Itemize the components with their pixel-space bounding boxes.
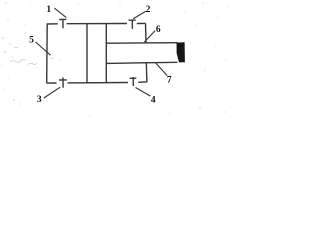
port 4 cap xyxy=(130,77,137,79)
cylinder top wall segment left xyxy=(47,23,58,25)
piston left face xyxy=(86,24,88,83)
leader line 2 xyxy=(133,11,146,19)
leader line 4 xyxy=(136,88,151,97)
svg-text:3: 3 xyxy=(37,95,42,105)
port 3 stem xyxy=(62,78,64,88)
leader line 1 xyxy=(55,8,67,17)
port 1 stem xyxy=(62,19,64,28)
piston right face 6 xyxy=(105,24,107,83)
rod end black tip xyxy=(177,42,185,62)
cylinder right wall lower xyxy=(145,62,148,82)
svg-text:6: 6 xyxy=(156,25,161,35)
leader line 3 xyxy=(44,87,60,98)
scan noise speckles xyxy=(1,2,234,119)
cylinder top wall segment middle xyxy=(67,23,127,25)
cylinder top wall segment right xyxy=(137,22,146,24)
port 2 cap xyxy=(129,19,136,21)
cylinder right wall upper xyxy=(145,23,148,42)
svg-text:7: 7 xyxy=(167,75,172,85)
cylinder bottom wall segment right xyxy=(138,81,147,84)
cylinder bottom wall segment left xyxy=(46,82,56,84)
svg-text:4: 4 xyxy=(151,95,156,105)
port 4 stem xyxy=(132,77,134,86)
leader line 7 xyxy=(155,62,167,75)
piston rod bottom line xyxy=(106,62,177,63)
cylinder left wall 5 xyxy=(46,24,49,83)
port 2 stem xyxy=(131,20,133,29)
port 1 cap xyxy=(59,18,66,20)
leader line 6 xyxy=(144,31,155,42)
leader line 5 xyxy=(36,42,51,55)
piston rod top line 7 xyxy=(106,42,177,45)
svg-text:1: 1 xyxy=(46,5,51,15)
faint scan ghost marks xyxy=(10,47,54,64)
svg-text:2: 2 xyxy=(146,5,151,15)
port 3 cap xyxy=(59,79,67,81)
svg-text:5: 5 xyxy=(29,35,34,45)
cylinder bottom wall segment middle xyxy=(68,82,129,84)
